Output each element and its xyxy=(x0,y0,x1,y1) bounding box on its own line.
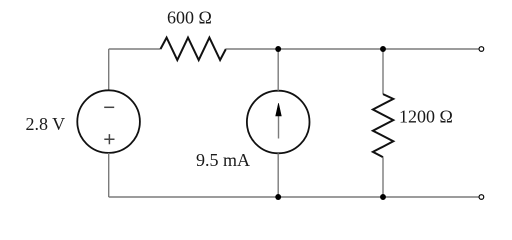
svg-text:2.8 V: 2.8 V xyxy=(26,114,66,134)
wire: bottom rail xyxy=(109,196,479,198)
terminal: bottom-right open terminal xyxy=(479,195,484,200)
wire: top rail from resistor to top-right terminal xyxy=(226,48,479,50)
resistor R1 600 ohm (horizontal zigzag) xyxy=(161,38,226,60)
I1 arrow head xyxy=(276,103,282,116)
V1 minus sign xyxy=(104,106,114,108)
wire: R2 bottom to bottom rail xyxy=(382,157,384,197)
svg-text:600 Ω: 600 Ω xyxy=(167,8,212,28)
current source I1 (9.5 mA) xyxy=(247,91,310,154)
resistor R2 1200 ohm (vertical zigzag) xyxy=(373,94,393,157)
svg-text:1200 Ω: 1200 Ω xyxy=(399,107,453,127)
node: junction dot at I1 top xyxy=(275,46,281,52)
svg-text:9.5 mA: 9.5 mA xyxy=(196,150,250,170)
node: junction dot at R2 top xyxy=(380,46,386,52)
node: junction dot at I1 bottom xyxy=(275,194,281,200)
node: junction dot at R2 bottom xyxy=(380,194,386,200)
wire: top rail from V1 corner to 600-ohm resistor xyxy=(109,48,161,50)
wire: V1 bottom to bottom rail xyxy=(108,153,110,197)
wire: top rail to I1 top xyxy=(277,49,279,91)
I1 arrow shaft xyxy=(278,114,280,139)
wire: right branch from top rail down to R2 xyxy=(382,49,384,94)
V1 plus sign xyxy=(104,134,114,144)
wire: I1 bottom to bottom rail xyxy=(277,153,279,197)
terminal: top-right open terminal xyxy=(479,47,484,52)
voltage source V1 (2.8 V) xyxy=(77,90,140,153)
wire: left vertical from top rail corner down to V1 top xyxy=(108,49,110,90)
